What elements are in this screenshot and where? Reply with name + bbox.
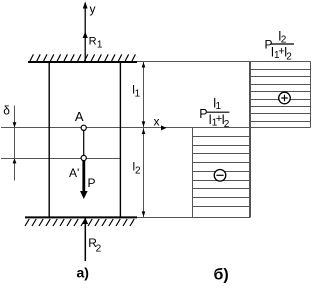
svg-text:P: P (88, 176, 96, 190)
svg-text:2: 2 (96, 244, 102, 255)
svg-text:y: y (90, 2, 96, 16)
svg-text:P: P (199, 107, 207, 121)
svg-text:R: R (89, 35, 97, 47)
svg-text:1: 1 (135, 89, 141, 100)
svg-text:1: 1 (216, 101, 222, 112)
svg-text:2: 2 (224, 119, 230, 130)
svg-text:a): a) (77, 265, 89, 281)
svg-text:A: A (75, 109, 84, 124)
svg-text:δ: δ (3, 104, 10, 118)
svg-text:A': A' (69, 166, 79, 180)
svg-text:2: 2 (135, 166, 141, 177)
svg-text:1: 1 (97, 39, 103, 50)
svg-text:б): б) (214, 267, 229, 284)
svg-text:x: x (154, 115, 160, 129)
svg-text:2: 2 (286, 52, 292, 63)
